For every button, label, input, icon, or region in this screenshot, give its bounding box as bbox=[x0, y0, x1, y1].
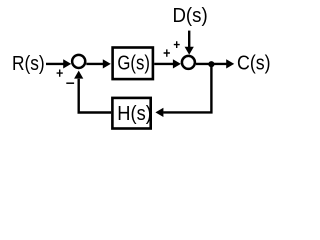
wire G(s) to summing junction S2 bbox=[154, 63, 173, 65]
arrowhead into G(s) bbox=[103, 59, 111, 68]
arrowhead into S1 bottom bbox=[74, 71, 83, 79]
wire R(s) to summing junction S1 bbox=[46, 63, 64, 65]
minus sign at S1 feedback input bbox=[66, 82, 74, 84]
plus sign at S2 left input bbox=[164, 49, 170, 56]
block G(s) box bbox=[113, 48, 153, 80]
feedback wire from H(s) left up to S1 bbox=[79, 79, 111, 113]
block H(s) box bbox=[112, 98, 150, 129]
wire D(s) down to S2 bbox=[188, 31, 190, 48]
feedback wire from node down and left to H(s) bbox=[163, 64, 211, 112]
svg-text:R(s): R(s) bbox=[12, 52, 45, 75]
arrowhead into C(s) bbox=[226, 59, 234, 68]
plus sign at S2 top input bbox=[174, 41, 180, 48]
plus sign at S1 input bbox=[57, 70, 63, 77]
arrowhead into H(s) right side bbox=[155, 108, 163, 117]
arrowhead into S2 left bbox=[173, 59, 181, 68]
summing junction S2 bbox=[182, 56, 195, 69]
arrowhead into S2 top bbox=[185, 47, 194, 55]
svg-text:D(s): D(s) bbox=[172, 4, 207, 27]
wire S1 to G(s) bbox=[86, 63, 103, 65]
junction dot node on output line bbox=[208, 61, 214, 67]
arrowhead into S1 left bbox=[63, 59, 71, 68]
summing junction S1 bbox=[72, 55, 85, 68]
svg-text:C(s): C(s) bbox=[237, 52, 271, 75]
wire S2 to C(s) output bbox=[196, 63, 227, 65]
svg-text:G(s): G(s) bbox=[117, 52, 150, 75]
svg-text:H(s): H(s) bbox=[117, 102, 152, 125]
